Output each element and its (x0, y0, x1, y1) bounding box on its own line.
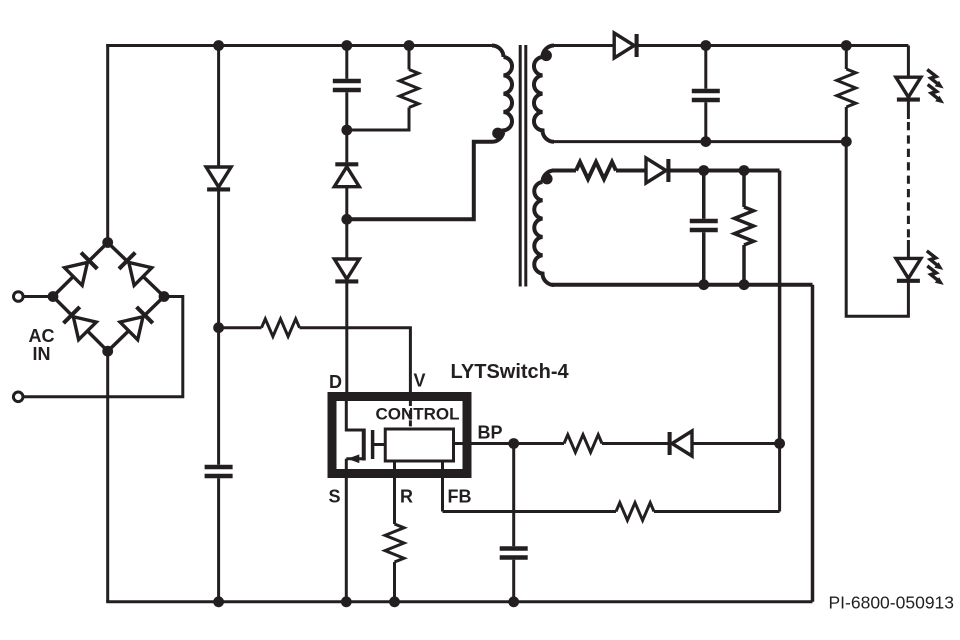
wire FB horizontal lead (443, 510, 617, 513)
node output1 cap top (700, 40, 711, 51)
node output2 cap bottom (698, 279, 709, 290)
IC U1 box (332, 397, 467, 474)
wire secondary1 top lead to diode (552, 44, 614, 47)
wire output2 cap branch upper (702, 171, 706, 219)
wire LED string bottom return (846, 142, 908, 317)
node output2 resistor bottom (739, 279, 750, 290)
wire FB resistor to feedback node (654, 510, 780, 513)
svg-text:CONTROL: CONTROL (375, 405, 459, 424)
LED2 (896, 258, 921, 280)
capacitor C clamp (333, 79, 361, 84)
wire V pin dashed inside IC (409, 400, 412, 429)
svg-text:IN: IN (33, 344, 51, 364)
wire left diode branch middle (217, 189, 220, 464)
node clamp RC junction (341, 125, 352, 136)
wire output2 resistor branch upper (742, 171, 746, 208)
wire secondary2 top lead (552, 169, 576, 173)
wire bleeder resistor bottom lead (845, 107, 848, 142)
CONTROL box (385, 429, 453, 461)
diode bridge top-left (64, 252, 98, 286)
wire upper AC terminal to bridge left node (24, 295, 53, 298)
wire LED string top (907, 46, 910, 78)
wire BP resistor to diode (602, 442, 668, 445)
wire left vertical from top rail to bridge + node (106, 44, 109, 243)
node clamp to primary (341, 214, 352, 225)
winding primary (492, 46, 512, 142)
resistor R output2 (vertical) (735, 207, 754, 245)
wire resistor to diode (616, 169, 646, 173)
capacitor C1 bulk (205, 465, 233, 470)
diode D output1 (pointing right) (614, 33, 636, 58)
wire BP cap branch upper (512, 444, 515, 547)
wire bleeder resistor top lead (845, 46, 848, 70)
node top rail / left diode (213, 40, 224, 51)
node bottom rail S pin (341, 596, 352, 607)
diode bridge bottom-right (120, 306, 154, 340)
resistor R series output2 (horizontal) (576, 162, 616, 179)
mosfet gate bar (371, 430, 375, 459)
resistor R feedback (horizontal) (616, 503, 654, 521)
wire BP diode to feedback node (692, 442, 780, 445)
node primary phase dot (492, 128, 503, 139)
resistor R BP (horizontal) (564, 435, 602, 453)
node secondary1 phase dot (541, 50, 552, 61)
wire clamp resistor bottom lead (347, 108, 409, 131)
node output2 resistor top (739, 165, 750, 176)
wire output2 top to corner (668, 169, 779, 173)
diode D output2 (pointing right) (646, 158, 668, 183)
node output1 bleeder top (841, 40, 852, 51)
node bottom rail R pin (389, 596, 400, 607)
wire feedback vertical from output2 (778, 171, 782, 444)
node bridge top (102, 237, 113, 248)
wire clamp cap bottom lead (345, 92, 348, 130)
node top rail / clamp cap (341, 40, 352, 51)
diode D series to drain (pointing down) (334, 259, 359, 281)
node feedback junction (774, 438, 785, 449)
winding secondary 2 (534, 171, 554, 286)
wire dashed LED string (907, 122, 910, 240)
wire bridge edge top-right (108, 243, 164, 297)
node bridge right (159, 291, 170, 302)
wire primary return: node to transformer primary bottom (347, 142, 492, 220)
svg-text:BP: BP (478, 423, 503, 443)
wire bottom rail (106, 600, 812, 603)
wire BP cap branch lower (512, 560, 515, 602)
node output1 bleeder bottom (841, 136, 852, 147)
svg-text:D: D (329, 372, 342, 392)
svg-text:FB: FB (448, 487, 472, 507)
wire output2 resistor branch lower (742, 245, 746, 285)
wire top rail (106, 44, 493, 47)
wire series diode to D pin (345, 281, 348, 392)
svg-text:AC: AC (29, 326, 55, 346)
wire bridge edge top-left (53, 243, 108, 297)
capacitor C output1 (692, 89, 720, 94)
node bottom rail bulk cap (213, 596, 224, 607)
wire clamp resistor top lead (408, 46, 411, 70)
wire divider to V pin (300, 328, 411, 393)
wire output2 return (552, 283, 813, 287)
wire dashed to LED2 (907, 240, 910, 258)
wire bridge edge bottom-left (53, 297, 108, 352)
light bolts LED1 (927, 70, 944, 89)
LED1 (896, 77, 921, 99)
node bridge bottom (102, 346, 113, 357)
AC input terminal lower (13, 392, 23, 402)
node BP junction (508, 438, 519, 449)
wire bridge bottom node down to bottom rail (106, 351, 109, 602)
wire output1 return (552, 140, 846, 143)
svg-text:S: S (328, 487, 340, 507)
mosfet Q drain lead inside IC (346, 394, 363, 430)
light bolts LED2 (927, 251, 944, 270)
winding secondary 1 (534, 46, 554, 142)
svg-text:V: V (414, 371, 426, 391)
wire feedback node down (778, 444, 781, 512)
wire left diode branch upper (217, 46, 220, 168)
node output2 cap top (698, 165, 709, 176)
wire lower AC terminal to bridge right node (24, 297, 183, 397)
wire output2 cap branch lower (702, 232, 706, 284)
wire LED1 to dashed (907, 100, 910, 119)
resistor R on R pin (vertical) (385, 524, 404, 562)
resistor R bleeder output1 (vertical) (837, 69, 856, 107)
wire FB pin down (441, 461, 444, 512)
node bridge left (48, 291, 59, 302)
wire S pin down to bottom rail (345, 459, 348, 602)
node bottom rail BP cap (508, 596, 519, 607)
capacitor C BP (500, 546, 528, 551)
wire divider tap lead (219, 326, 262, 329)
wire left diode branch lower (217, 478, 220, 602)
wire R resistor to bottom rail (393, 562, 396, 602)
wire clamp diode to primary node (345, 187, 348, 220)
svg-text:LYTSwitch-4: LYTSwitch-4 (451, 361, 570, 383)
diode bridge top-right (118, 252, 152, 286)
node top rail / clamp resistor (404, 40, 415, 51)
diode D clamp blocking (pointing up) (334, 164, 359, 186)
wire series diode branch upper (345, 219, 348, 259)
wire output1 top: diode to LED corner (637, 44, 909, 47)
diode D1 left branch (pointing down) (206, 167, 231, 189)
node secondary2 phase dot (541, 173, 552, 184)
wire R pin down (393, 461, 396, 524)
node output1 cap bottom (700, 136, 711, 147)
diode D BP (pointing left) (670, 431, 692, 456)
mosfet channel bar (362, 429, 366, 461)
capacitor C output2 (690, 219, 718, 224)
core (519, 45, 522, 287)
wire gate to control (373, 443, 386, 446)
AC input terminal upper (13, 292, 23, 302)
resistor R clamp (vertical) (400, 70, 419, 108)
svg-text:PI-6800-050913: PI-6800-050913 (829, 593, 955, 613)
resistor R divider (horizontal) (262, 319, 300, 337)
wire output1 cap branch upper (704, 46, 707, 89)
wire output1 cap branch lower (704, 102, 707, 141)
svg-text:R: R (400, 487, 413, 507)
diode bridge bottom-left (63, 306, 97, 340)
node divider tap (213, 322, 224, 333)
mosfet source lead with arrow (346, 457, 363, 460)
wire output2 return down right side (811, 285, 815, 602)
wire clamp cap top lead (345, 46, 348, 79)
wire bridge edge bottom-right (108, 297, 164, 352)
wire BP pin out (454, 442, 565, 445)
wire clamp junction to diode (345, 130, 348, 162)
